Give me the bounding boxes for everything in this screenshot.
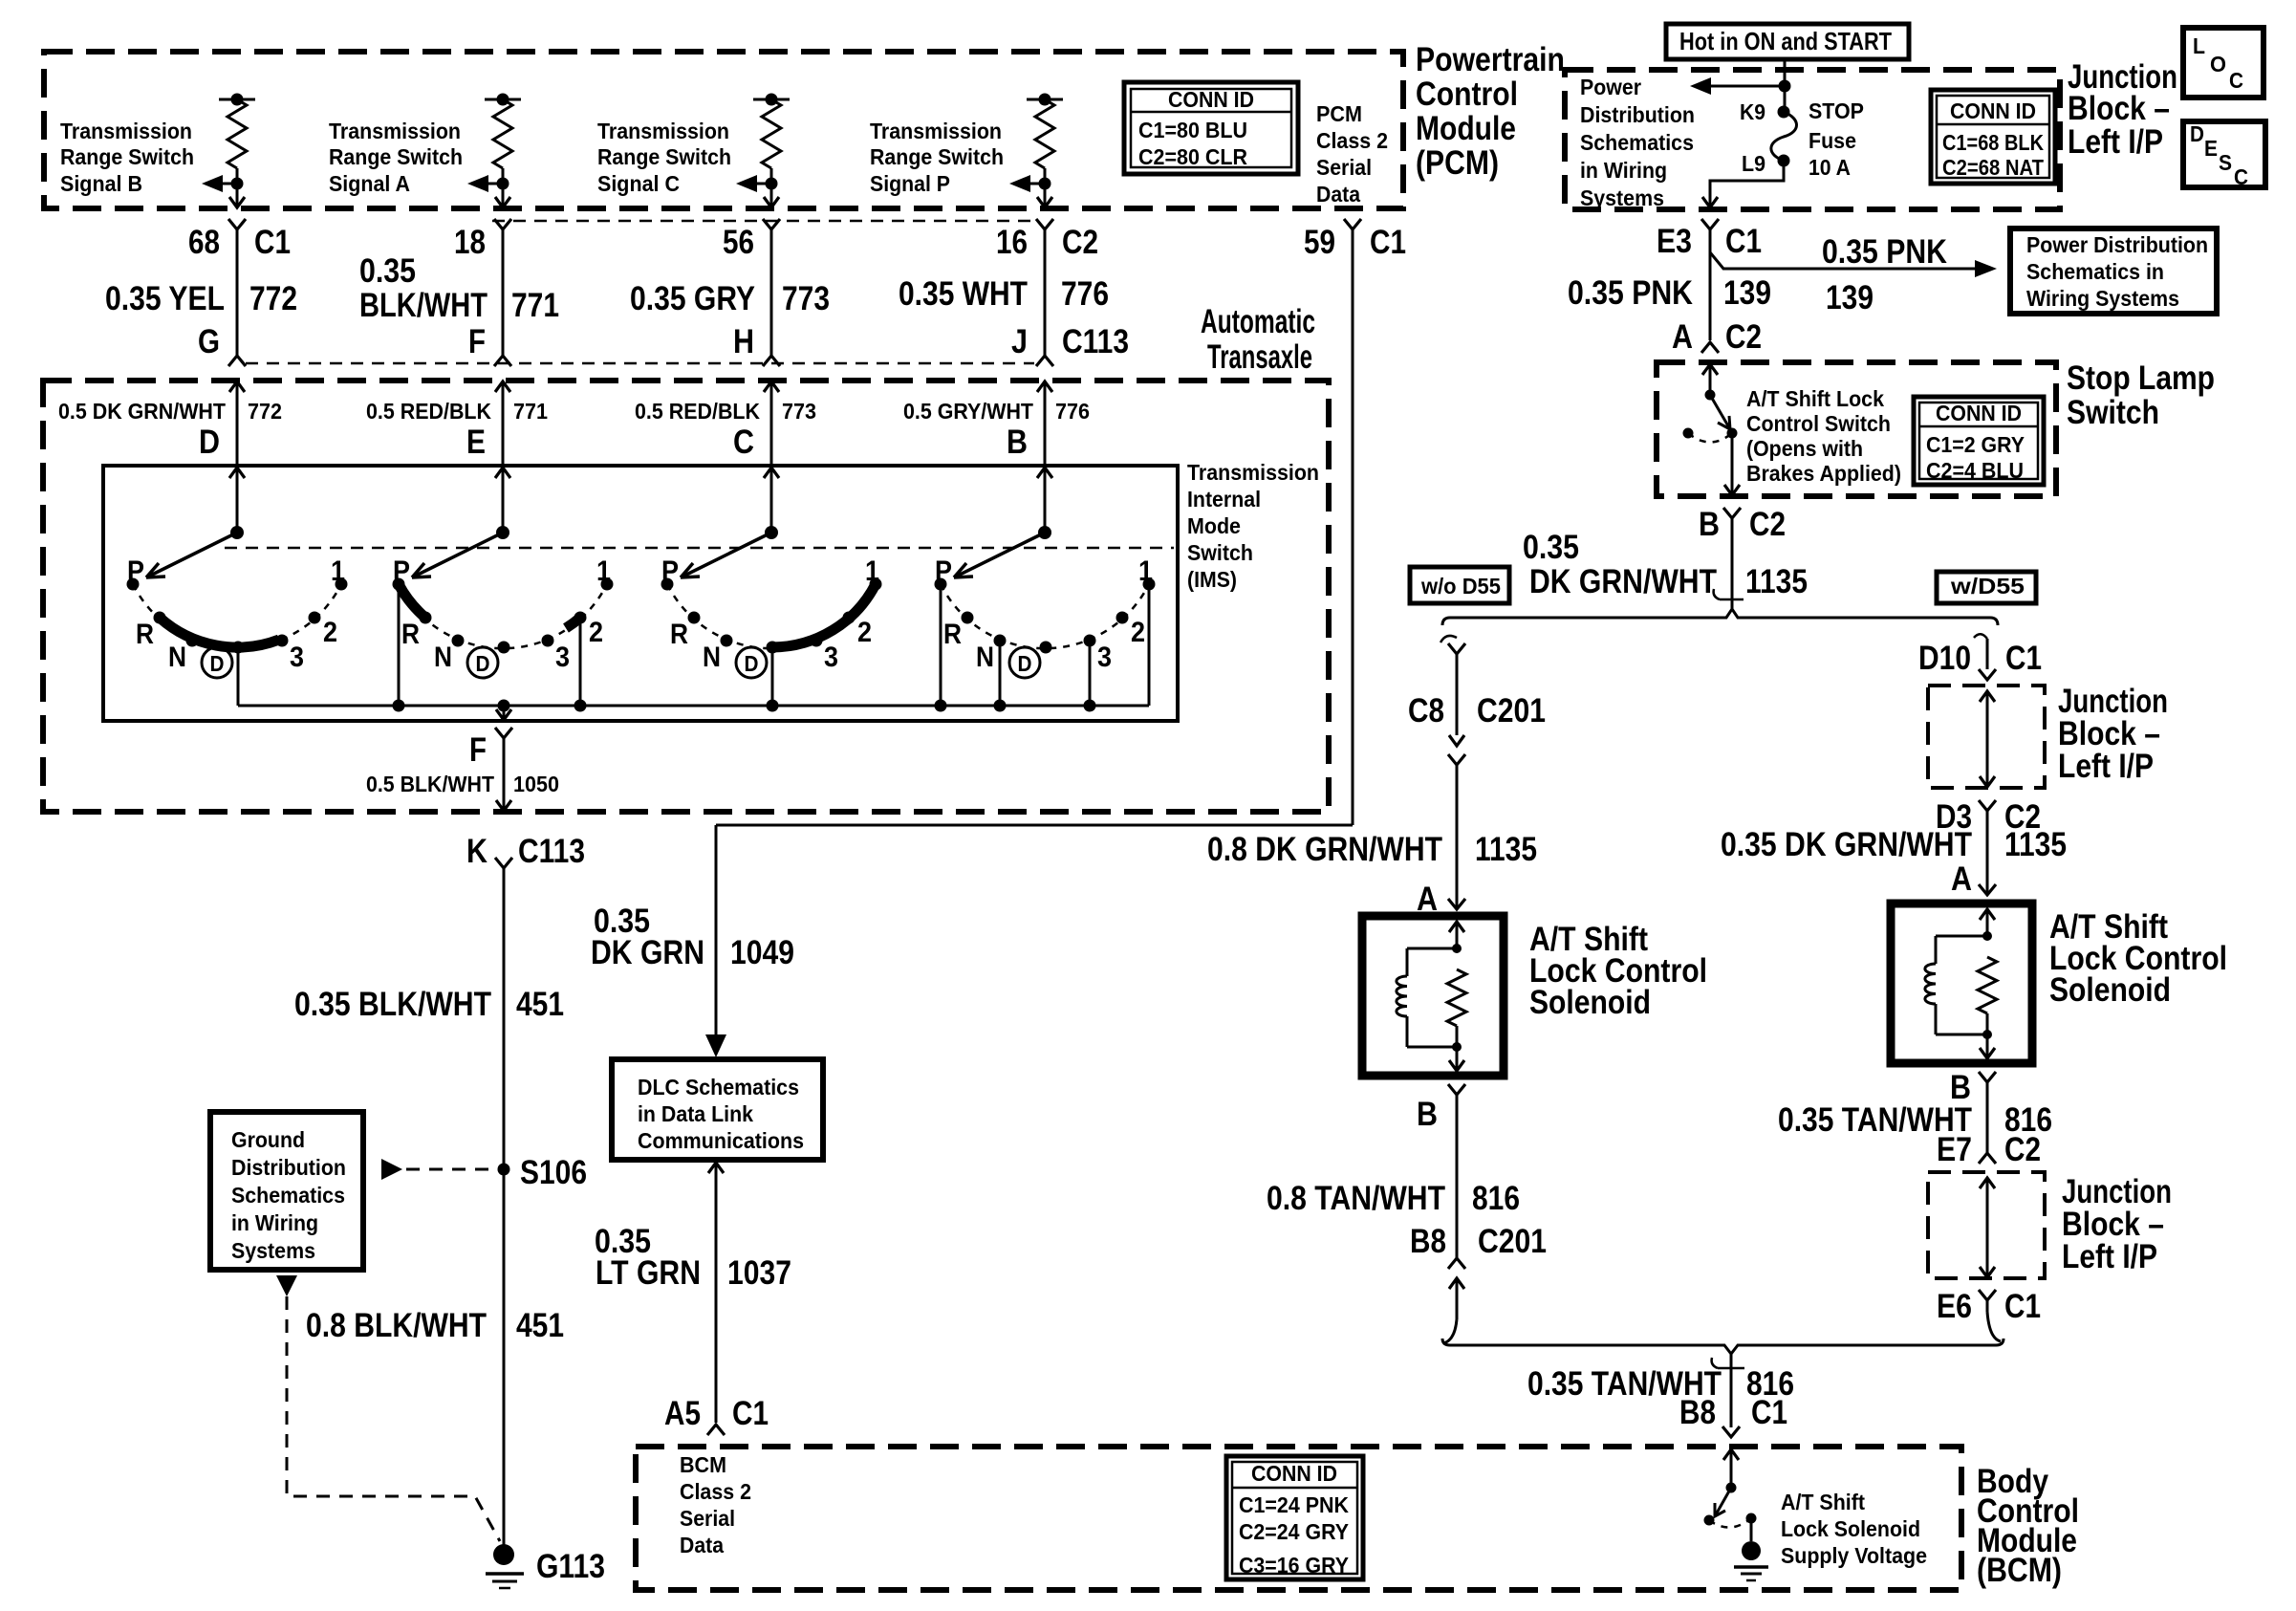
svg-text:P: P xyxy=(661,555,679,587)
svg-text:C1: C1 xyxy=(2004,1288,2041,1325)
svg-text:2: 2 xyxy=(323,617,337,648)
power distribution schematics box xyxy=(2010,229,2217,314)
svg-text:3: 3 xyxy=(824,642,838,673)
svg-text:0.8 TAN/WHT: 0.8 TAN/WHT xyxy=(1267,1180,1445,1217)
svg-text:R: R xyxy=(943,619,962,650)
svg-text:C113: C113 xyxy=(518,833,585,870)
wire 139 (0.35 PNK) xyxy=(1709,229,1712,340)
svg-text:Schematics in: Schematics in xyxy=(2026,259,2164,284)
IMS wafer 2: selector arrow to P xyxy=(412,533,503,577)
DLC schematics box xyxy=(612,1059,823,1160)
svg-text:Internal: Internal xyxy=(1187,487,1261,512)
svg-text:0.35 GRY: 0.35 GRY xyxy=(630,280,755,317)
svg-text:N: N xyxy=(976,642,994,673)
svg-text:C1=2 GRY: C1=2 GRY xyxy=(1926,432,2025,457)
svg-text:2: 2 xyxy=(1131,617,1145,648)
signal B arrow xyxy=(231,178,244,190)
stop lamp switch box (dashed) xyxy=(1657,362,2056,496)
IMS wafer 4: contact-to-bus wires xyxy=(940,584,942,706)
svg-text:C1: C1 xyxy=(732,1395,769,1432)
svg-text:CONN ID: CONN ID xyxy=(1168,87,1254,112)
svg-text:D10: D10 xyxy=(1918,640,1971,677)
splice S106 xyxy=(498,1164,510,1176)
wire 771 (0.35 BLK/WHT) xyxy=(502,229,505,356)
dashed link box to G113 xyxy=(276,1275,297,1296)
CONN ID table (PCM) xyxy=(1124,82,1298,174)
svg-text:Left I/P: Left I/P xyxy=(2058,748,2154,785)
IMS wafer 4: contact arc (dashed) xyxy=(941,584,1149,648)
dashed link box to S106 xyxy=(381,1159,402,1180)
svg-text:3: 3 xyxy=(555,642,570,673)
ground G113 xyxy=(493,1544,514,1565)
junction block 2 box (dashed) xyxy=(1928,686,2045,788)
connector C113 pin J xyxy=(1036,356,1053,366)
svg-text:D: D xyxy=(2190,121,2204,146)
svg-text:B8: B8 xyxy=(1679,1394,1716,1431)
arrow to power distribution xyxy=(1711,85,1785,88)
IMS output F wire xyxy=(498,700,510,712)
svg-text:Transaxle: Transaxle xyxy=(1207,338,1312,376)
svg-text:2: 2 xyxy=(589,617,603,648)
svg-text:0.5 RED/BLK: 0.5 RED/BLK xyxy=(635,399,760,424)
svg-text:A/T Shift: A/T Shift xyxy=(1781,1490,1865,1514)
IMS bus wire xyxy=(238,705,1149,708)
svg-text:16: 16 xyxy=(996,224,1028,261)
resistor (range switch signal A pull-up) xyxy=(485,98,521,101)
svg-text:w/o D55: w/o D55 xyxy=(1420,574,1501,599)
svg-text:Signal A: Signal A xyxy=(329,171,410,196)
svg-text:772: 772 xyxy=(248,399,282,424)
svg-text:0.8 BLK/WHT: 0.8 BLK/WHT xyxy=(306,1307,487,1344)
IMS wafer 2: entry wire and pivot xyxy=(495,468,510,478)
svg-text:2: 2 xyxy=(857,617,872,648)
CONN ID table (junction block) xyxy=(1931,90,2055,184)
svg-text:Data: Data xyxy=(1316,182,1360,207)
svg-text:1135: 1135 xyxy=(1475,831,1537,868)
signal P wire to PCM pin xyxy=(1044,184,1047,207)
switch output wire xyxy=(1731,433,1734,494)
svg-text:Signal B: Signal B xyxy=(60,171,142,196)
svg-text:C1: C1 xyxy=(254,224,291,261)
svg-text:772: 772 xyxy=(249,280,297,317)
A/T shift lock solenoid supply voltage switch xyxy=(1723,1449,1739,1460)
svg-text:C2=68 NAT: C2=68 NAT xyxy=(1942,155,2044,180)
A/T shift lock control solenoid (w/D55) xyxy=(1891,903,2032,1063)
svg-text:Serial: Serial xyxy=(680,1506,735,1531)
svg-text:1037: 1037 xyxy=(727,1254,791,1292)
svg-text:18: 18 xyxy=(454,224,486,261)
svg-text:Ground: Ground xyxy=(231,1127,305,1152)
svg-text:K9: K9 xyxy=(1740,99,1765,124)
svg-text:3: 3 xyxy=(1097,642,1112,673)
svg-text:Schematics: Schematics xyxy=(1580,130,1694,155)
svg-text:B: B xyxy=(1699,506,1720,543)
DESC legend box xyxy=(2183,121,2265,187)
svg-text:Class 2: Class 2 xyxy=(1316,128,1388,153)
svg-text:0.35: 0.35 xyxy=(359,252,416,290)
IMS wafer 4: circled D contact xyxy=(1009,647,1040,678)
connector C2 pin D3 xyxy=(1979,800,1996,811)
connector C1 pin E3 xyxy=(1701,219,1719,229)
svg-text:Range Switch: Range Switch xyxy=(329,144,463,169)
svg-text:C113: C113 xyxy=(1062,323,1129,360)
svg-text:0.35 YEL: 0.35 YEL xyxy=(105,280,225,317)
svg-text:451: 451 xyxy=(516,1307,564,1344)
svg-text:C2: C2 xyxy=(1725,318,1762,356)
svg-text:0.35 DK GRN/WHT: 0.35 DK GRN/WHT xyxy=(1721,826,1972,863)
connector C113 pin F xyxy=(494,356,511,366)
svg-text:A/T Shift Lock: A/T Shift Lock xyxy=(1746,386,1884,411)
svg-text:Signal C: Signal C xyxy=(597,171,680,196)
svg-text:C2: C2 xyxy=(1062,224,1098,261)
svg-text:Transmission: Transmission xyxy=(597,119,729,143)
svg-text:Class 2: Class 2 xyxy=(680,1479,751,1504)
svg-text:Transmission: Transmission xyxy=(1187,460,1319,485)
svg-text:R: R xyxy=(401,619,420,650)
svg-text:H: H xyxy=(733,323,754,360)
connector C113 boundary (thin dashed) xyxy=(492,220,1034,223)
IMS wafer 1: contact-to-bus wires xyxy=(237,647,240,706)
IMS wafer 2: contact-to-bus wires xyxy=(398,584,401,706)
resistor (range switch signal B pull-up) xyxy=(219,98,255,101)
svg-text:N: N xyxy=(434,642,452,673)
svg-text:L: L xyxy=(2193,33,2205,58)
junction block - left I/P box (dashed) xyxy=(1565,70,2060,209)
svg-text:G: G xyxy=(198,323,220,360)
svg-text:E: E xyxy=(466,424,486,461)
svg-text:Data: Data xyxy=(680,1533,724,1557)
svg-text:3: 3 xyxy=(290,642,304,673)
svg-text:in Wiring: in Wiring xyxy=(1580,158,1667,183)
svg-text:776: 776 xyxy=(1061,275,1109,313)
svg-text:773: 773 xyxy=(782,399,816,424)
svg-text:Left I/P: Left I/P xyxy=(2062,1238,2157,1275)
wire 772 (0.35 YEL) xyxy=(236,229,239,356)
IMS wafer 1: entry wire and pivot xyxy=(229,468,245,478)
svg-text:R: R xyxy=(136,619,154,650)
svg-text:(Opens with: (Opens with xyxy=(1746,436,1863,461)
wire 771 into IMS pin E xyxy=(495,381,510,392)
svg-text:Range Switch: Range Switch xyxy=(870,144,1004,169)
signal A wire to PCM pin xyxy=(502,184,505,207)
stop fuse 10A xyxy=(1778,106,1790,119)
svg-text:0.5 DK GRN/WHT: 0.5 DK GRN/WHT xyxy=(58,399,226,424)
svg-text:Solenoid: Solenoid xyxy=(2049,971,2171,1009)
svg-text:771: 771 xyxy=(513,399,548,424)
svg-text:E3: E3 xyxy=(1657,223,1692,260)
svg-text:C1=80 BLU: C1=80 BLU xyxy=(1138,118,1247,142)
signal C arrow xyxy=(766,178,778,190)
right branch fork xyxy=(1979,669,1996,680)
wire through junction block 2 xyxy=(1980,691,1995,702)
svg-text:(PCM): (PCM) xyxy=(1416,144,1499,182)
svg-text:816: 816 xyxy=(1472,1180,1520,1217)
svg-text:in Wiring: in Wiring xyxy=(231,1210,318,1235)
left branch hook to lower brace xyxy=(1443,1319,1457,1343)
CONN ID table (stop lamp switch) xyxy=(1914,397,2044,485)
wire 773 (0.35 GRY) xyxy=(770,229,773,356)
automatic transaxle box (dashed) xyxy=(43,381,1329,812)
svg-text:C1: C1 xyxy=(2005,640,2042,677)
splice merge brace to BCM xyxy=(1442,1339,2004,1354)
svg-text:Supply Voltage: Supply Voltage xyxy=(1781,1543,1927,1568)
svg-text:139: 139 xyxy=(1826,279,1874,316)
svg-text:DK GRN: DK GRN xyxy=(591,934,704,971)
svg-text:A: A xyxy=(1672,318,1693,356)
PCM module box (dashed) xyxy=(44,52,1403,208)
svg-text:56: 56 xyxy=(723,224,754,261)
svg-text:Left I/P: Left I/P xyxy=(2068,123,2163,161)
IMS wafer 1: contact arc (dashed) xyxy=(133,584,341,648)
svg-text:Control: Control xyxy=(1416,76,1518,113)
IMS wafer 3: circled D contact xyxy=(736,647,767,678)
svg-text:C: C xyxy=(733,424,754,461)
svg-text:Stop Lamp: Stop Lamp xyxy=(2067,359,2215,397)
wire 776 (0.35 WHT) xyxy=(1044,229,1047,356)
connector C1/C2 pin 68 xyxy=(228,219,246,229)
svg-text:D: D xyxy=(199,424,220,461)
svg-text:Power Distribution: Power Distribution xyxy=(2026,232,2208,257)
svg-text:D: D xyxy=(210,651,225,676)
svg-text:Transmission: Transmission xyxy=(870,119,1002,143)
svg-text:Range Switch: Range Switch xyxy=(60,144,194,169)
signal P arrow xyxy=(1039,178,1051,190)
IMS wafer 4: contact dots xyxy=(935,578,947,591)
svg-text:C: C xyxy=(2229,68,2243,93)
svg-text:J: J xyxy=(1011,323,1028,360)
A/T shift lock control switch xyxy=(1702,364,1718,375)
svg-text:D: D xyxy=(476,651,490,676)
splice split brace (w/o D55 - w/D55) xyxy=(1442,609,1998,625)
svg-text:E: E xyxy=(2204,136,2218,161)
svg-text:K: K xyxy=(466,833,487,870)
IMS wafer 3: contact dots xyxy=(661,578,674,591)
connector C1/C2 pin 16 xyxy=(1036,219,1053,229)
svg-text:P: P xyxy=(393,555,410,587)
feed wire from hot box xyxy=(1784,59,1787,112)
svg-text:Block –: Block – xyxy=(2068,90,2170,127)
wire 776 into IMS pin B xyxy=(1037,381,1052,392)
svg-text:C2: C2 xyxy=(2004,1131,2041,1168)
IMS wafer 1: closed-position arc (bold) xyxy=(160,618,279,647)
wire through junction block 3 xyxy=(1980,1178,1995,1188)
svg-text:0.5 RED/BLK: 0.5 RED/BLK xyxy=(366,399,491,424)
PCM class 2 serial data wire 1049 xyxy=(1352,229,1354,825)
svg-text:E7: E7 xyxy=(1937,1131,1972,1168)
svg-text:1049: 1049 xyxy=(730,934,794,971)
svg-text:(IMS): (IMS) xyxy=(1187,567,1237,592)
svg-text:0.35 PNK: 0.35 PNK xyxy=(1568,274,1693,312)
svg-text:Switch: Switch xyxy=(2067,394,2159,431)
svg-text:Mode: Mode xyxy=(1187,513,1241,538)
w/D55 tag box xyxy=(1937,572,2036,603)
LOC legend box xyxy=(2183,28,2264,98)
IMS wafer 2: contact dots xyxy=(393,578,405,591)
svg-text:C2=4 BLU: C2=4 BLU xyxy=(1926,458,2024,483)
IMS wafer 2: contact arc (dashed) xyxy=(399,584,607,648)
svg-text:0.8 DK GRN/WHT: 0.8 DK GRN/WHT xyxy=(1207,831,1442,868)
svg-text:139: 139 xyxy=(1723,274,1771,312)
svg-text:0.35 PNK: 0.35 PNK xyxy=(1822,233,1947,271)
svg-text:1: 1 xyxy=(596,555,611,587)
CONN ID table (BCM) xyxy=(1226,1456,1363,1579)
svg-text:P: P xyxy=(935,555,952,587)
svg-text:C8: C8 xyxy=(1408,692,1444,729)
svg-text:C3=16 GRY: C3=16 GRY xyxy=(1239,1553,1349,1578)
svg-text:B8: B8 xyxy=(1410,1223,1446,1260)
svg-text:C2=24 GRY: C2=24 GRY xyxy=(1239,1519,1349,1544)
right branch hook to lower brace xyxy=(1987,1312,2001,1341)
resistor (range switch signal C pull-up) xyxy=(753,98,790,101)
svg-text:C201: C201 xyxy=(1478,1223,1547,1260)
svg-text:773: 773 xyxy=(782,280,830,317)
svg-text:0.5 GRY/WHT: 0.5 GRY/WHT xyxy=(903,399,1033,424)
connector C1/C2 pin 59 xyxy=(1344,219,1361,229)
svg-text:0.35 WHT: 0.35 WHT xyxy=(899,275,1028,313)
svg-text:N: N xyxy=(703,642,721,673)
svg-text:Systems: Systems xyxy=(231,1238,315,1263)
wire 1037 (0.35 LT GRN) xyxy=(708,1163,724,1173)
Hot in ON and START box xyxy=(1666,24,1909,59)
svg-text:C: C xyxy=(2234,164,2248,189)
svg-text:CONN ID: CONN ID xyxy=(1251,1461,1337,1486)
IMS wafer 2: circled D contact xyxy=(467,647,498,678)
wire 773 into IMS pin C xyxy=(764,381,779,392)
svg-text:1135: 1135 xyxy=(2004,826,2067,863)
svg-text:C201: C201 xyxy=(1477,692,1546,729)
ground distribution schematics box xyxy=(210,1112,363,1270)
IMS wafer 1: selector arrow to P xyxy=(146,533,237,577)
svg-text:1135: 1135 xyxy=(1745,563,1808,600)
connector C113 pin H xyxy=(763,356,780,366)
junction block 3 box (dashed) xyxy=(1928,1172,2045,1278)
w/o D55 tag box xyxy=(1410,567,1509,603)
svg-text:(BCM): (BCM) xyxy=(1977,1552,2062,1589)
solenoid L pin B xyxy=(1448,1084,1465,1095)
svg-text:BCM: BCM xyxy=(680,1452,726,1477)
IMS wafer 1: circled D contact xyxy=(202,647,232,678)
svg-text:Brakes Applied): Brakes Applied) xyxy=(1746,461,1901,486)
svg-text:Transmission: Transmission xyxy=(60,119,192,143)
IMS wafer 3: closed-position arc (bold) xyxy=(772,584,876,647)
svg-text:S106: S106 xyxy=(520,1154,587,1191)
svg-text:451: 451 xyxy=(516,986,564,1023)
svg-text:B: B xyxy=(1007,424,1028,461)
IMS wafer 3: entry wire and pivot xyxy=(764,468,779,478)
wire 816 (0.35 TAN/WHT) to BCM xyxy=(1730,1368,1733,1427)
svg-text:Range Switch: Range Switch xyxy=(597,144,731,169)
svg-text:O: O xyxy=(2210,52,2226,76)
svg-text:A5: A5 xyxy=(664,1395,701,1432)
resistor (range switch signal P pull-up) xyxy=(1027,98,1063,101)
svg-text:Signal P: Signal P xyxy=(870,171,950,196)
svg-text:Systems: Systems xyxy=(1580,185,1664,210)
connector C113 pin G xyxy=(228,356,246,366)
svg-text:Hot in ON and START: Hot in ON and START xyxy=(1679,27,1892,55)
svg-text:P: P xyxy=(127,555,144,587)
svg-text:Transmission: Transmission xyxy=(329,119,461,143)
svg-text:B: B xyxy=(1417,1096,1438,1133)
signal A arrow xyxy=(497,178,509,190)
svg-text:F: F xyxy=(468,323,486,360)
svg-text:Power: Power xyxy=(1580,75,1641,99)
svg-text:L9: L9 xyxy=(1742,151,1765,176)
connector C113 pin K xyxy=(496,800,511,811)
body control module box (dashed) xyxy=(636,1447,1961,1590)
wire 1135 (0.35 DK GRN/WHT) xyxy=(1731,518,1734,609)
svg-text:1050: 1050 xyxy=(513,772,559,796)
svg-text:68: 68 xyxy=(188,224,220,261)
svg-text:C1=68 BLK: C1=68 BLK xyxy=(1942,130,2044,155)
svg-text:G113: G113 xyxy=(536,1548,605,1585)
svg-text:CONN ID: CONN ID xyxy=(1936,401,2022,425)
svg-text:C1: C1 xyxy=(1751,1394,1787,1431)
connector C1 pin D10 xyxy=(1986,639,1989,669)
svg-text:D: D xyxy=(1018,651,1032,676)
svg-text:Powertrain: Powertrain xyxy=(1416,41,1565,78)
svg-text:N: N xyxy=(168,642,186,673)
svg-text:C1: C1 xyxy=(1370,224,1406,261)
svg-text:C1: C1 xyxy=(1725,223,1762,260)
A/T shift lock control solenoid (w/o D55) xyxy=(1362,916,1504,1076)
svg-text:DLC Schematics: DLC Schematics xyxy=(638,1075,799,1099)
IMS internal dashed line xyxy=(225,547,1174,550)
svg-text:BLK/WHT: BLK/WHT xyxy=(359,287,487,324)
svg-text:776: 776 xyxy=(1055,399,1090,424)
svg-text:C2: C2 xyxy=(1749,506,1786,543)
svg-text:Distribution: Distribution xyxy=(231,1155,346,1180)
left branch fork xyxy=(1448,643,1465,654)
svg-text:0.35 BLK/WHT: 0.35 BLK/WHT xyxy=(294,986,491,1023)
transmission internal mode switch (IMS) box xyxy=(103,466,1178,721)
svg-text:0.5 BLK/WHT: 0.5 BLK/WHT xyxy=(366,772,494,796)
svg-text:Communications: Communications xyxy=(638,1128,804,1153)
svg-text:Switch: Switch xyxy=(1187,540,1253,565)
svg-text:Control Switch: Control Switch xyxy=(1746,411,1891,436)
arrow into DLC box xyxy=(705,1034,726,1057)
BCM internal ground xyxy=(1750,1518,1753,1541)
IMS wafer 3: contact arc (dashed) xyxy=(667,584,876,648)
svg-text:Wiring Systems: Wiring Systems xyxy=(2026,286,2179,311)
IMS wafer 4: selector arrow to P xyxy=(954,533,1045,577)
IMS wafer 2: closed-position arc (bold) xyxy=(399,584,425,618)
svg-text:F: F xyxy=(469,731,487,769)
svg-text:LT GRN: LT GRN xyxy=(596,1254,701,1292)
connector C1 pin E6 xyxy=(1979,1290,1996,1300)
svg-text:C1=24 PNK: C1=24 PNK xyxy=(1239,1492,1349,1517)
svg-text:771: 771 xyxy=(511,287,559,324)
svg-text:Schematics: Schematics xyxy=(231,1183,345,1208)
signal B wire to PCM pin xyxy=(236,184,239,207)
branch arrow wire 139 to power distribution schematics xyxy=(1710,252,1975,269)
svg-text:DK GRN/WHT: DK GRN/WHT xyxy=(1529,563,1717,600)
signal C wire to PCM pin xyxy=(770,184,773,207)
IMS wafer 1: contact dots xyxy=(127,578,140,591)
svg-text:Serial: Serial xyxy=(1316,155,1372,180)
svg-text:w/D55: w/D55 xyxy=(1950,574,2025,599)
connector C2 pin B xyxy=(1723,508,1741,518)
svg-text:Lock Solenoid: Lock Solenoid xyxy=(1781,1516,1920,1541)
svg-text:Distribution: Distribution xyxy=(1580,102,1695,127)
IMS wafer 4: entry wire and pivot xyxy=(1037,468,1052,478)
svg-text:10 A: 10 A xyxy=(1809,155,1851,180)
svg-text:STOP: STOP xyxy=(1809,98,1864,123)
svg-text:C2=80 CLR: C2=80 CLR xyxy=(1138,144,1247,169)
connector C1/C2 pin 18 xyxy=(494,219,511,229)
svg-text:CONN ID: CONN ID xyxy=(1950,98,2036,123)
svg-text:Fuse: Fuse xyxy=(1809,128,1856,153)
wire 451 (BLK/WHT) main ground run xyxy=(503,868,506,1555)
